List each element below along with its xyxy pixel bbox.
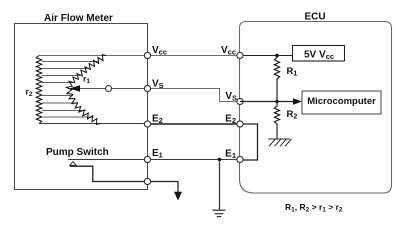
svg-text:VS: VS <box>152 79 164 91</box>
svg-text:5V Vcc: 5V Vcc <box>304 50 334 62</box>
wire aux to arrow <box>151 182 179 193</box>
arrow down (vehicle body ground) <box>174 192 182 201</box>
wire tap 7 <box>42 110 86 112</box>
pin E2 meter <box>144 121 150 127</box>
ground (hatched) <box>268 139 292 146</box>
pump switch contact triangle <box>70 162 77 166</box>
svg-text:E2: E2 <box>152 114 163 126</box>
pin Vcc meter <box>144 52 150 58</box>
wire top (r2 top to Vcc pin) <box>39 55 148 57</box>
svg-text:Air Flow Meter: Air Flow Meter <box>44 13 113 24</box>
svg-text:ECU: ECU <box>304 12 325 23</box>
ECU box <box>240 22 392 194</box>
svg-text:Vcc: Vcc <box>221 45 236 57</box>
wire switch tail <box>70 166 145 181</box>
resistor r2 <box>36 56 42 124</box>
svg-text:Microcomputer: Microcomputer <box>307 96 376 107</box>
wire bottom (r2 bottom to E2 pin) <box>39 123 148 125</box>
svg-text:E1: E1 <box>225 149 236 161</box>
wire tap 6 <box>42 102 78 104</box>
junction E1 <box>218 158 222 162</box>
pin Vs ECU <box>237 98 243 104</box>
wire Vcc (ECU internal to 5V box) <box>240 55 292 57</box>
wire tap 8 <box>42 116 94 118</box>
wire tap 2 <box>42 68 89 70</box>
Air Flow Meter box <box>15 24 148 190</box>
Microcomputer box <box>302 91 381 114</box>
wire tap 1 <box>42 61 98 63</box>
svg-text:Pump Switch: Pump Switch <box>46 147 109 158</box>
junction Vcc/R1 <box>275 54 279 58</box>
resistor r1 (potentiometer track arc) <box>66 55 106 125</box>
svg-text:Vcc: Vcc <box>152 45 167 57</box>
wire junction to ground <box>219 160 221 211</box>
junction Vs/R2 <box>275 100 279 104</box>
wire Vs (meter to ECU, stepped) <box>148 89 241 102</box>
wire Vs to microcomputer <box>240 101 295 103</box>
pin Vs meter <box>144 85 150 91</box>
svg-text:VS: VS <box>225 91 237 103</box>
pin E2 ECU <box>237 121 243 127</box>
pin aux meter <box>144 178 150 184</box>
wire E1 (switch line to ECU) <box>68 159 240 161</box>
wire E2-E1 bracket (ECU internal) <box>243 124 258 160</box>
resistor R1 <box>274 56 279 102</box>
pin Vcc ECU <box>237 52 243 58</box>
resistor R2 <box>274 102 279 140</box>
wire E2 (meter to ECU) <box>148 123 241 125</box>
node wiper <box>106 86 112 92</box>
wire tap 4 <box>42 82 73 84</box>
wiper arrow <box>78 88 146 90</box>
pin E1 meter <box>144 156 150 162</box>
wire tap 3 <box>42 75 80 77</box>
pin E1 ECU <box>237 156 243 162</box>
wire tap 5 <box>42 95 73 97</box>
5V Vcc box <box>293 46 345 62</box>
svg-text:E1: E1 <box>152 148 163 160</box>
ground (3-bar) <box>213 210 226 216</box>
arrow into microcomputer <box>293 98 302 105</box>
wire Vcc (meter to ECU) <box>148 55 241 57</box>
svg-text:E2: E2 <box>225 114 236 126</box>
